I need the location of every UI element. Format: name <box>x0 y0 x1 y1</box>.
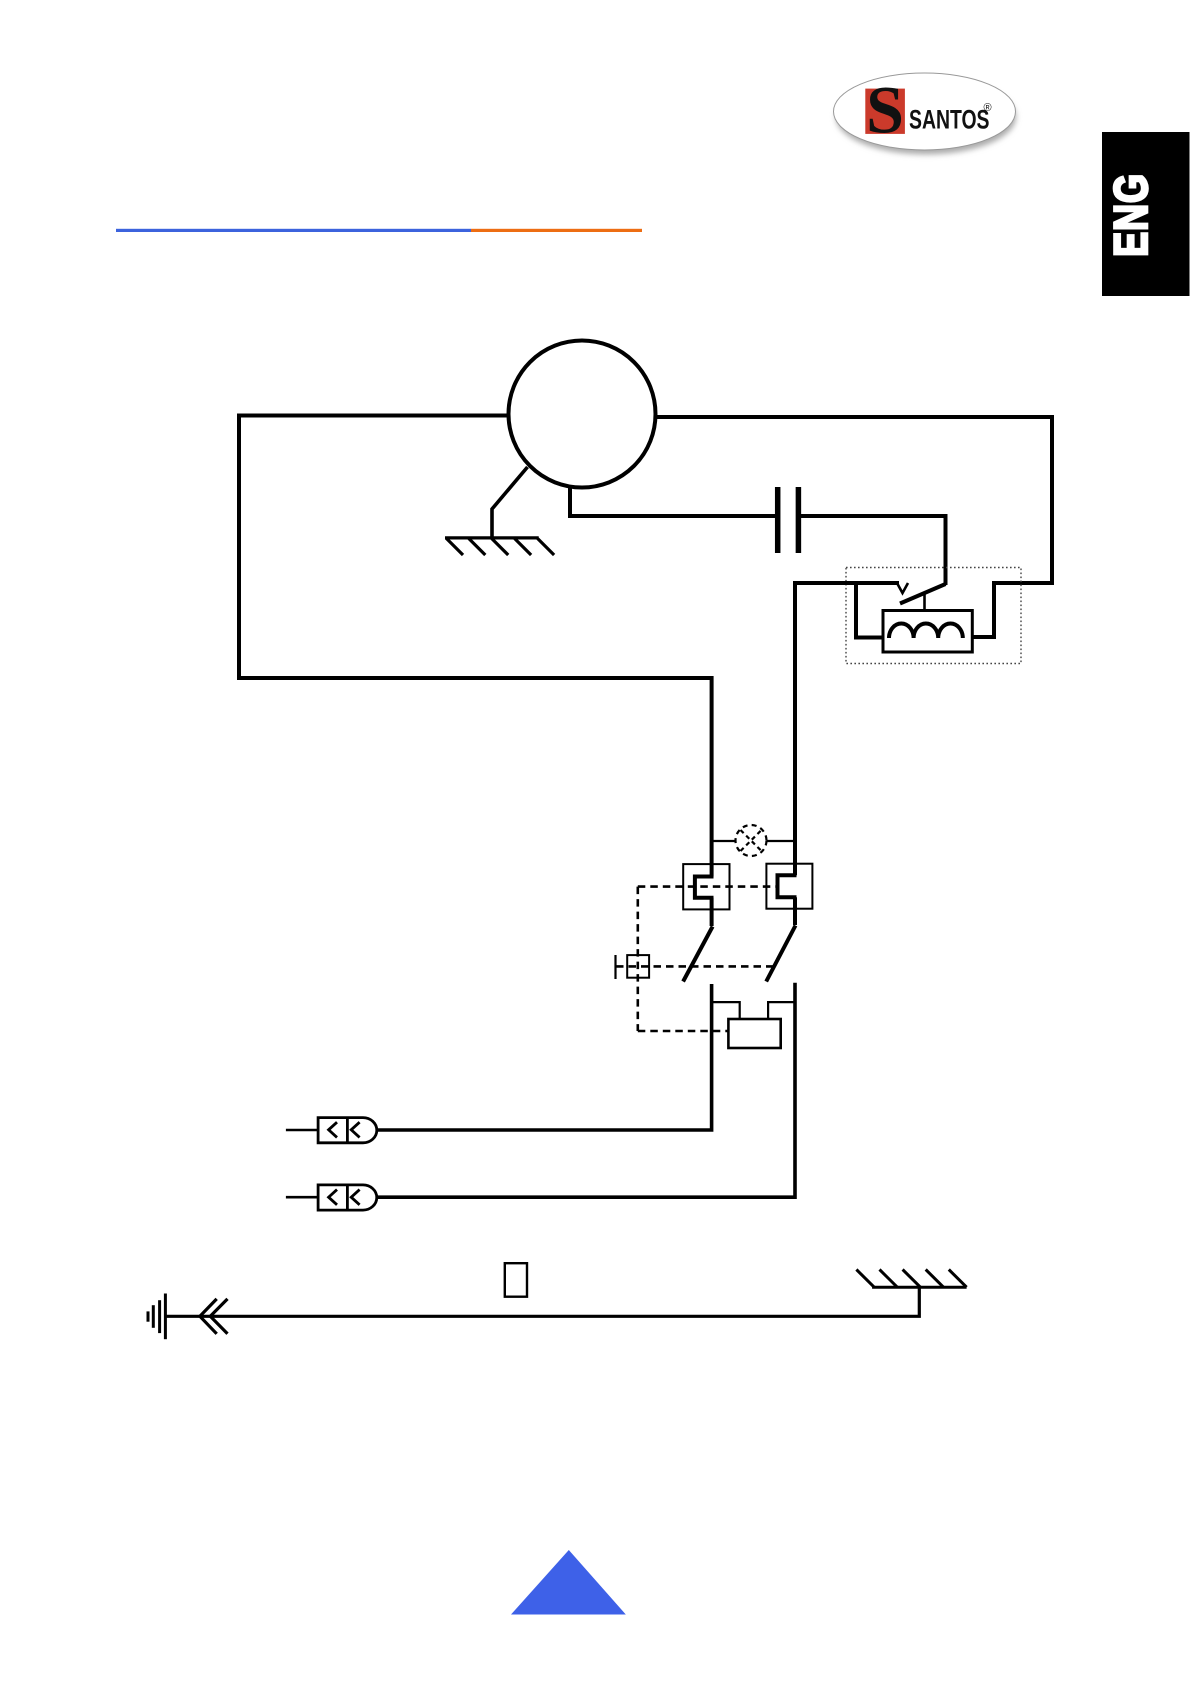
wire: relay heater left lead <box>856 583 883 638</box>
bus: right vertical (relay to lamp, switch S2, terminal 2) upper part <box>793 581 797 875</box>
terminal X2 lead <box>286 1196 318 1199</box>
terminal X1 chevron 1 <box>329 1122 337 1137</box>
switch S2 lower stub <box>793 897 797 925</box>
lamp H dashed circle <box>736 825 767 856</box>
terminal X2 divider <box>346 1185 349 1210</box>
switch S1 contact bracket <box>695 877 714 898</box>
push button actuator bar <box>614 955 616 979</box>
mechanical link lower dashed <box>638 1030 729 1033</box>
motor ground stem <box>492 467 528 538</box>
switch S1 lower stub <box>710 898 714 926</box>
terminal X2 chevron 2 <box>351 1190 359 1205</box>
terminal X1 lead <box>286 1129 318 1132</box>
mechanical link vertical dashed <box>636 887 639 1031</box>
switch S2 blade <box>766 926 795 982</box>
lamp left lead <box>712 840 736 842</box>
wire: motor bottom stub to capacitor <box>570 485 775 516</box>
capacitor C plate 2 <box>796 487 802 553</box>
switch S1 box <box>683 864 729 909</box>
switch S2 contact bracket <box>778 875 797 897</box>
terminal X2 chevron 1 <box>329 1190 337 1205</box>
footer blue triangle <box>511 1550 626 1615</box>
thermal relay dotted enclosure <box>846 568 1021 664</box>
fuse holder small box <box>505 1263 527 1297</box>
Santos logo oval shadow <box>836 80 1016 155</box>
chassis ground symbol <box>856 1270 966 1288</box>
mechanical link upper dashed <box>638 885 779 888</box>
terminal X1 body <box>318 1118 377 1143</box>
motor M circle <box>509 341 656 488</box>
title rule orange segment <box>471 229 642 232</box>
timer box <box>728 1019 780 1048</box>
bus: left vertical lower part <box>377 984 712 1130</box>
switch S2 box <box>766 864 812 909</box>
terminal X2 body <box>318 1185 377 1210</box>
bus: right vertical lower part <box>377 983 795 1197</box>
capacitor C plate 1 <box>775 487 781 553</box>
svg-text:ENG: ENG <box>1105 173 1158 257</box>
svg-text:®: ® <box>984 102 992 114</box>
relay fixed contact notch <box>897 583 908 593</box>
switch S1 blade <box>683 927 713 982</box>
title rule blue segment <box>116 229 471 232</box>
timer box leads <box>712 1002 739 1019</box>
Santos logo red square <box>865 89 905 134</box>
ENG language tab <box>1102 132 1190 296</box>
mechanical link button dashed <box>616 965 774 968</box>
relay blade to heater link <box>923 594 926 611</box>
bus: left vertical (loop to lamp, switch S1, terminal 1) upper part <box>710 676 714 877</box>
wire: left loop (motor left, down, across bottom) <box>239 416 712 679</box>
lamp X cross <box>741 830 762 851</box>
earth double chevron <box>200 1299 228 1334</box>
wire: motor right to relay right side <box>656 417 1053 637</box>
relay switch blade <box>900 584 946 604</box>
motor ground symbol <box>445 538 554 555</box>
svg-text:S: S <box>866 72 904 148</box>
wire: capacitor to relay switch pivot <box>801 516 946 585</box>
wire: relay left lead from bus <box>795 581 900 585</box>
relay heater box <box>883 611 972 653</box>
earth electrode symbol <box>148 1294 165 1340</box>
terminal X1 divider <box>346 1118 349 1143</box>
relay heater coil <box>889 624 963 639</box>
svg-text:SANTOS: SANTOS <box>909 105 990 135</box>
terminal X1 chevron 2 <box>351 1122 359 1137</box>
Santos logo oval <box>834 73 1016 150</box>
push button box <box>627 955 649 978</box>
lamp right lead <box>767 840 796 842</box>
earth conductor line <box>165 1287 919 1316</box>
